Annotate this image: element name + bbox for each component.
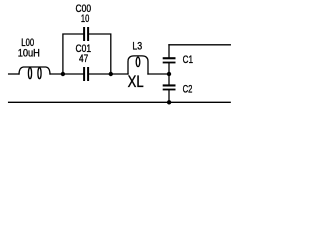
svg-text:47: 47: [79, 53, 88, 65]
svg-text:L3: L3: [132, 40, 142, 52]
svg-text:XL: XL: [128, 72, 144, 91]
svg-text:C1: C1: [183, 54, 193, 66]
svg-text:C2: C2: [183, 83, 193, 95]
svg-text:10: 10: [81, 13, 89, 25]
svg-text:10uH: 10uH: [18, 48, 40, 60]
